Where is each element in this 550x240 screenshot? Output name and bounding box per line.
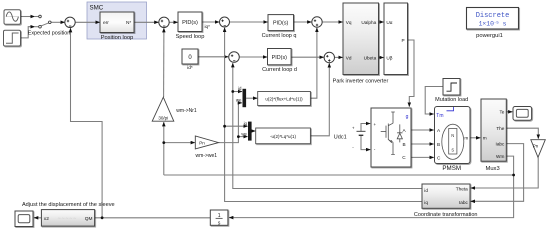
svg-text:iq: iq bbox=[424, 200, 428, 205]
svg-text:wm->Nr1: wm->Nr1 bbox=[176, 108, 197, 114]
svg-text:Current loop q: Current loop q bbox=[262, 33, 297, 39]
svg-text:iq: iq bbox=[244, 121, 248, 126]
svg-text:30/pi: 30/pi bbox=[158, 116, 168, 121]
svg-text:Vq: Vq bbox=[346, 20, 352, 25]
svg-text:The: The bbox=[496, 126, 504, 131]
svg-text:we: we bbox=[236, 97, 242, 102]
svg-text:we: we bbox=[241, 131, 247, 136]
svg-text:B: B bbox=[402, 142, 405, 147]
svg-text:Pn: Pn bbox=[199, 140, 205, 145]
svg-text:N*: N* bbox=[126, 20, 131, 26]
svg-text:id: id bbox=[238, 86, 242, 91]
svg-text:Pn: Pn bbox=[533, 144, 539, 149]
svg-text:Mux3: Mux3 bbox=[486, 166, 500, 172]
svg-text:wm->we1: wm->we1 bbox=[196, 153, 218, 159]
svg-text:x2: x2 bbox=[44, 216, 49, 222]
svg-text:iq*: iq* bbox=[205, 24, 211, 29]
svg-text:Position loop: Position loop bbox=[101, 35, 134, 41]
svg-text:Adjust the displacement of the: Adjust the displacement of the sleeve bbox=[22, 202, 115, 208]
svg-text:Uβ: Uβ bbox=[386, 55, 392, 60]
svg-text:B: B bbox=[437, 142, 440, 147]
svg-text:SMC: SMC bbox=[90, 4, 104, 11]
svg-text:∼∼∼∼∼: ∼∼∼∼∼ bbox=[57, 216, 76, 221]
svg-text:Vd: Vd bbox=[346, 55, 352, 60]
svg-text:Ubeta: Ubeta bbox=[364, 55, 377, 60]
svg-text:N: N bbox=[451, 133, 454, 138]
svg-text:u(2)*(flux+Ld*u(1)): u(2)*(flux+Ld*u(1)) bbox=[265, 96, 303, 101]
svg-text:+: + bbox=[374, 122, 377, 127]
svg-text:Udc1: Udc1 bbox=[334, 134, 347, 140]
svg-text:S: S bbox=[451, 148, 454, 153]
svg-text:Te: Te bbox=[499, 110, 504, 115]
svg-text:PMSM: PMSM bbox=[442, 165, 461, 172]
svg-text:Iabc: Iabc bbox=[459, 200, 469, 205]
svg-text:Expected position: Expected position bbox=[28, 31, 71, 37]
svg-text:Park inverter converter: Park inverter converter bbox=[333, 79, 389, 85]
svg-text:Mutation load: Mutation load bbox=[435, 97, 468, 103]
svg-text:Uα: Uα bbox=[386, 20, 392, 25]
svg-text:m: m bbox=[464, 136, 468, 141]
svg-text:Ualpha: Ualpha bbox=[361, 20, 376, 25]
svg-text:+: + bbox=[352, 126, 355, 131]
svg-text:-u(2)*Lq*u(1): -u(2)*Lq*u(1) bbox=[270, 134, 297, 139]
svg-text:Coordinate transformation: Coordinate transformation bbox=[414, 212, 478, 218]
svg-text:Wm: Wm bbox=[496, 154, 504, 159]
svg-text:Theta: Theta bbox=[456, 186, 468, 191]
svg-text:g: g bbox=[406, 114, 409, 120]
svg-text:err: err bbox=[103, 20, 109, 26]
svg-text:PID(s): PID(s) bbox=[273, 21, 288, 27]
svg-text:Speed loop: Speed loop bbox=[176, 34, 205, 40]
svg-text:m: m bbox=[483, 136, 487, 141]
svg-text:Iabc: Iabc bbox=[496, 142, 506, 147]
svg-text:PID(s): PID(s) bbox=[272, 55, 287, 61]
svg-text:powergui1: powergui1 bbox=[476, 33, 503, 39]
svg-text:Tm: Tm bbox=[436, 113, 443, 119]
svg-text:id*: id* bbox=[187, 65, 193, 71]
svg-text:-: - bbox=[352, 145, 354, 150]
svg-text:PID(s): PID(s) bbox=[182, 20, 198, 26]
svg-text:QM: QM bbox=[85, 216, 93, 222]
svg-text:Current loop d: Current loop d bbox=[262, 67, 297, 73]
svg-text:id: id bbox=[424, 188, 428, 193]
svg-text:1×10-5 s: 1×10-5 s bbox=[479, 20, 507, 27]
svg-text:P: P bbox=[401, 38, 404, 43]
svg-text:Discrete: Discrete bbox=[476, 12, 510, 20]
